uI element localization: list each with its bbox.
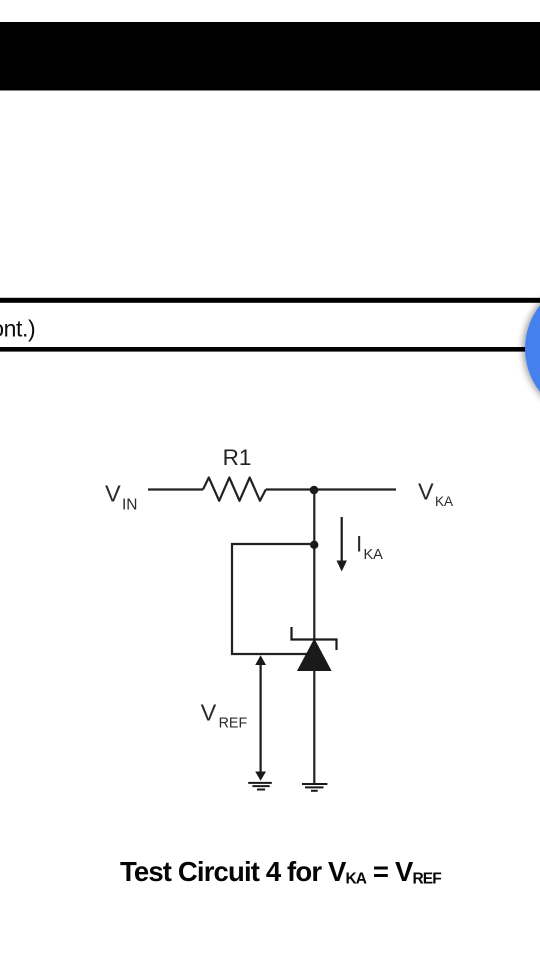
top app bar (black) — [0, 22, 540, 91]
ground (anode) — [302, 784, 327, 791]
svg-text:ont.): ont.) — [0, 316, 35, 342]
svg-text:V: V — [201, 700, 217, 726]
shunt regulator U1 triangle (anode) — [298, 640, 331, 671]
label VREF — [201, 700, 248, 732]
label IKA — [356, 531, 383, 562]
node VKA label — [418, 479, 453, 510]
svg-text:V: V — [418, 479, 434, 505]
shunt regulator U1 cathode bar — [292, 627, 337, 650]
svg-text:I: I — [356, 531, 362, 556]
resistor R1 — [203, 478, 266, 501]
node K junction dot — [310, 486, 319, 495]
floating action button (blue, clipped at right edge) — [525, 279, 540, 419]
junction dot ref branch — [310, 541, 318, 549]
ground (VREF) — [248, 783, 272, 790]
node VIN label — [105, 481, 138, 514]
wire ref feedback branch — [232, 544, 314, 654]
VREF measurement arrow (double headed) — [255, 655, 266, 781]
wire VIN to R1 — [148, 488, 203, 490]
svg-text:V: V — [105, 481, 121, 507]
wire R1 to VKA — [266, 488, 396, 490]
current arrow IKA — [337, 517, 347, 572]
wire cathode vertical — [313, 490, 315, 641]
svg-text:IN: IN — [122, 496, 138, 513]
svg-text:REF: REF — [219, 715, 248, 731]
svg-text:R1: R1 — [223, 445, 252, 470]
svg-text:KA: KA — [435, 494, 453, 509]
svg-text:Test Circuit 4 for VKA = VREF: Test Circuit 4 for VKA = VREF — [120, 856, 441, 887]
svg-text:KA: KA — [364, 547, 384, 563]
header rule bottom — [0, 347, 540, 352]
header rule top — [0, 298, 540, 303]
wire anode to ground — [313, 670, 315, 784]
